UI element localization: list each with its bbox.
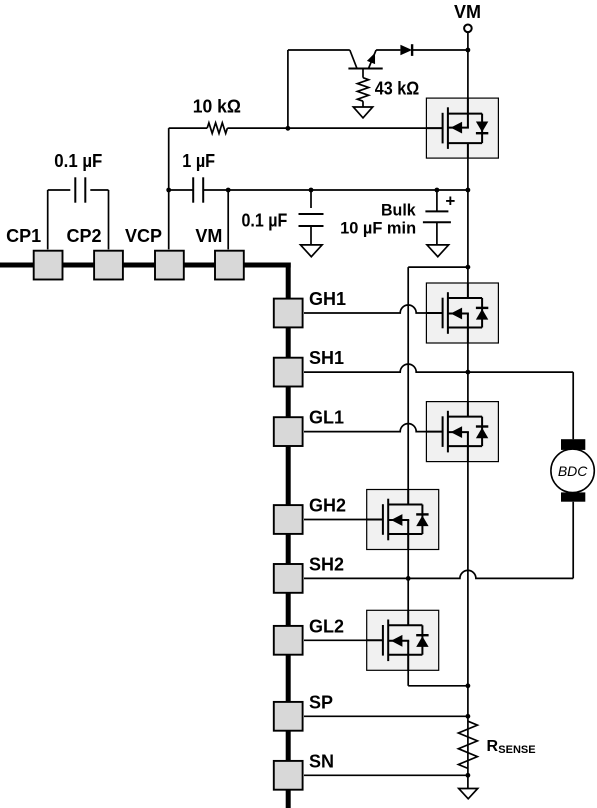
svg-text:10 kΩ: 10 kΩ [193,96,241,116]
svg-text:0.1 µF: 0.1 µF [54,151,102,171]
svg-text:SENSE: SENSE [498,744,535,756]
svg-text:GL1: GL1 [309,408,344,428]
svg-text:CP1: CP1 [6,226,41,246]
svg-text:CP2: CP2 [66,226,101,246]
svg-text:SP: SP [309,692,333,712]
svg-text:GH2: GH2 [309,496,346,516]
svg-text:VCP: VCP [125,226,162,246]
svg-text:GH1: GH1 [309,289,346,309]
svg-text:+: + [445,192,455,211]
svg-text:SH1: SH1 [309,348,344,368]
svg-text:GL2: GL2 [309,616,344,636]
svg-text:SN: SN [309,751,334,771]
svg-text:VM: VM [454,2,481,22]
svg-text:SH2: SH2 [309,554,344,574]
svg-text:43 kΩ: 43 kΩ [375,79,419,99]
svg-text:0.1 µF: 0.1 µF [242,210,288,230]
svg-text:VM: VM [195,226,222,246]
svg-text:R: R [487,738,499,755]
svg-text:BDC: BDC [558,463,588,479]
svg-text:Bulk: Bulk [381,201,416,219]
svg-text:10 µF min: 10 µF min [340,220,416,238]
svg-text:1 µF: 1 µF [182,151,215,171]
